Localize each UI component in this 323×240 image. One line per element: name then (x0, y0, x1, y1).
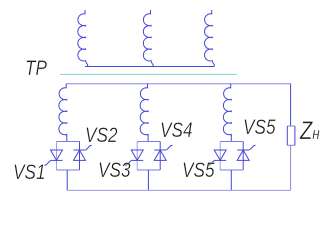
thyristor module box 3 (VS5 pair) (220, 142, 243, 171)
wire: box2 bottom lead (147, 170, 149, 190)
thyristor module box 1 (VS1/VS2) (57, 142, 80, 171)
transformer secondary winding L6 (phase C bottom coil) (223, 84, 231, 142)
transformer core line (cyan) (60, 73, 237, 75)
thyristor VS4 (right, conducts up) (154, 145, 172, 160)
transformer primary winding L3 (phase C top coil) (205, 10, 215, 67)
thyristor VS3 (left, conducts down) (125, 150, 143, 165)
thyristor module box 2 (VS3/VS4) (137, 142, 160, 171)
thyristor VS2 (right, conducts up) (74, 145, 92, 160)
load impedance Zн box (287, 126, 295, 145)
transformer primary winding L2 (phase B top coil) (143, 10, 153, 67)
wire: box1 bottom lead (66, 170, 68, 190)
wire: load to bottom bus (290, 145, 292, 190)
transformer primary winding L1 (phase A top coil) (78, 10, 88, 67)
wire: box3 bottom lead (230, 170, 232, 190)
wire: bottom bus (67, 189, 290, 191)
thyristor VS1 (left, conducts down) (44, 150, 62, 165)
thyristor VS5a (left, conducts down) (208, 150, 226, 165)
transformer secondary winding L5 (phase B bottom coil) (140, 84, 148, 142)
label VS5 (lower) (182, 160, 215, 182)
label VS4 (160, 120, 193, 142)
label VS3 (98, 160, 131, 182)
label VS5 (upper) (243, 117, 276, 139)
thyristor VS5b (right, conducts up) (237, 145, 255, 160)
wire: right branch down to load (290, 84, 292, 126)
label Zн (300, 119, 320, 144)
label VS2 (85, 125, 118, 147)
label TP (25, 58, 47, 80)
wire: primary bus (85, 66, 214, 68)
label VS1 (13, 162, 46, 184)
wire: secondary bus (66, 83, 290, 85)
transformer secondary winding L4 (phase A bottom coil) (59, 84, 67, 142)
